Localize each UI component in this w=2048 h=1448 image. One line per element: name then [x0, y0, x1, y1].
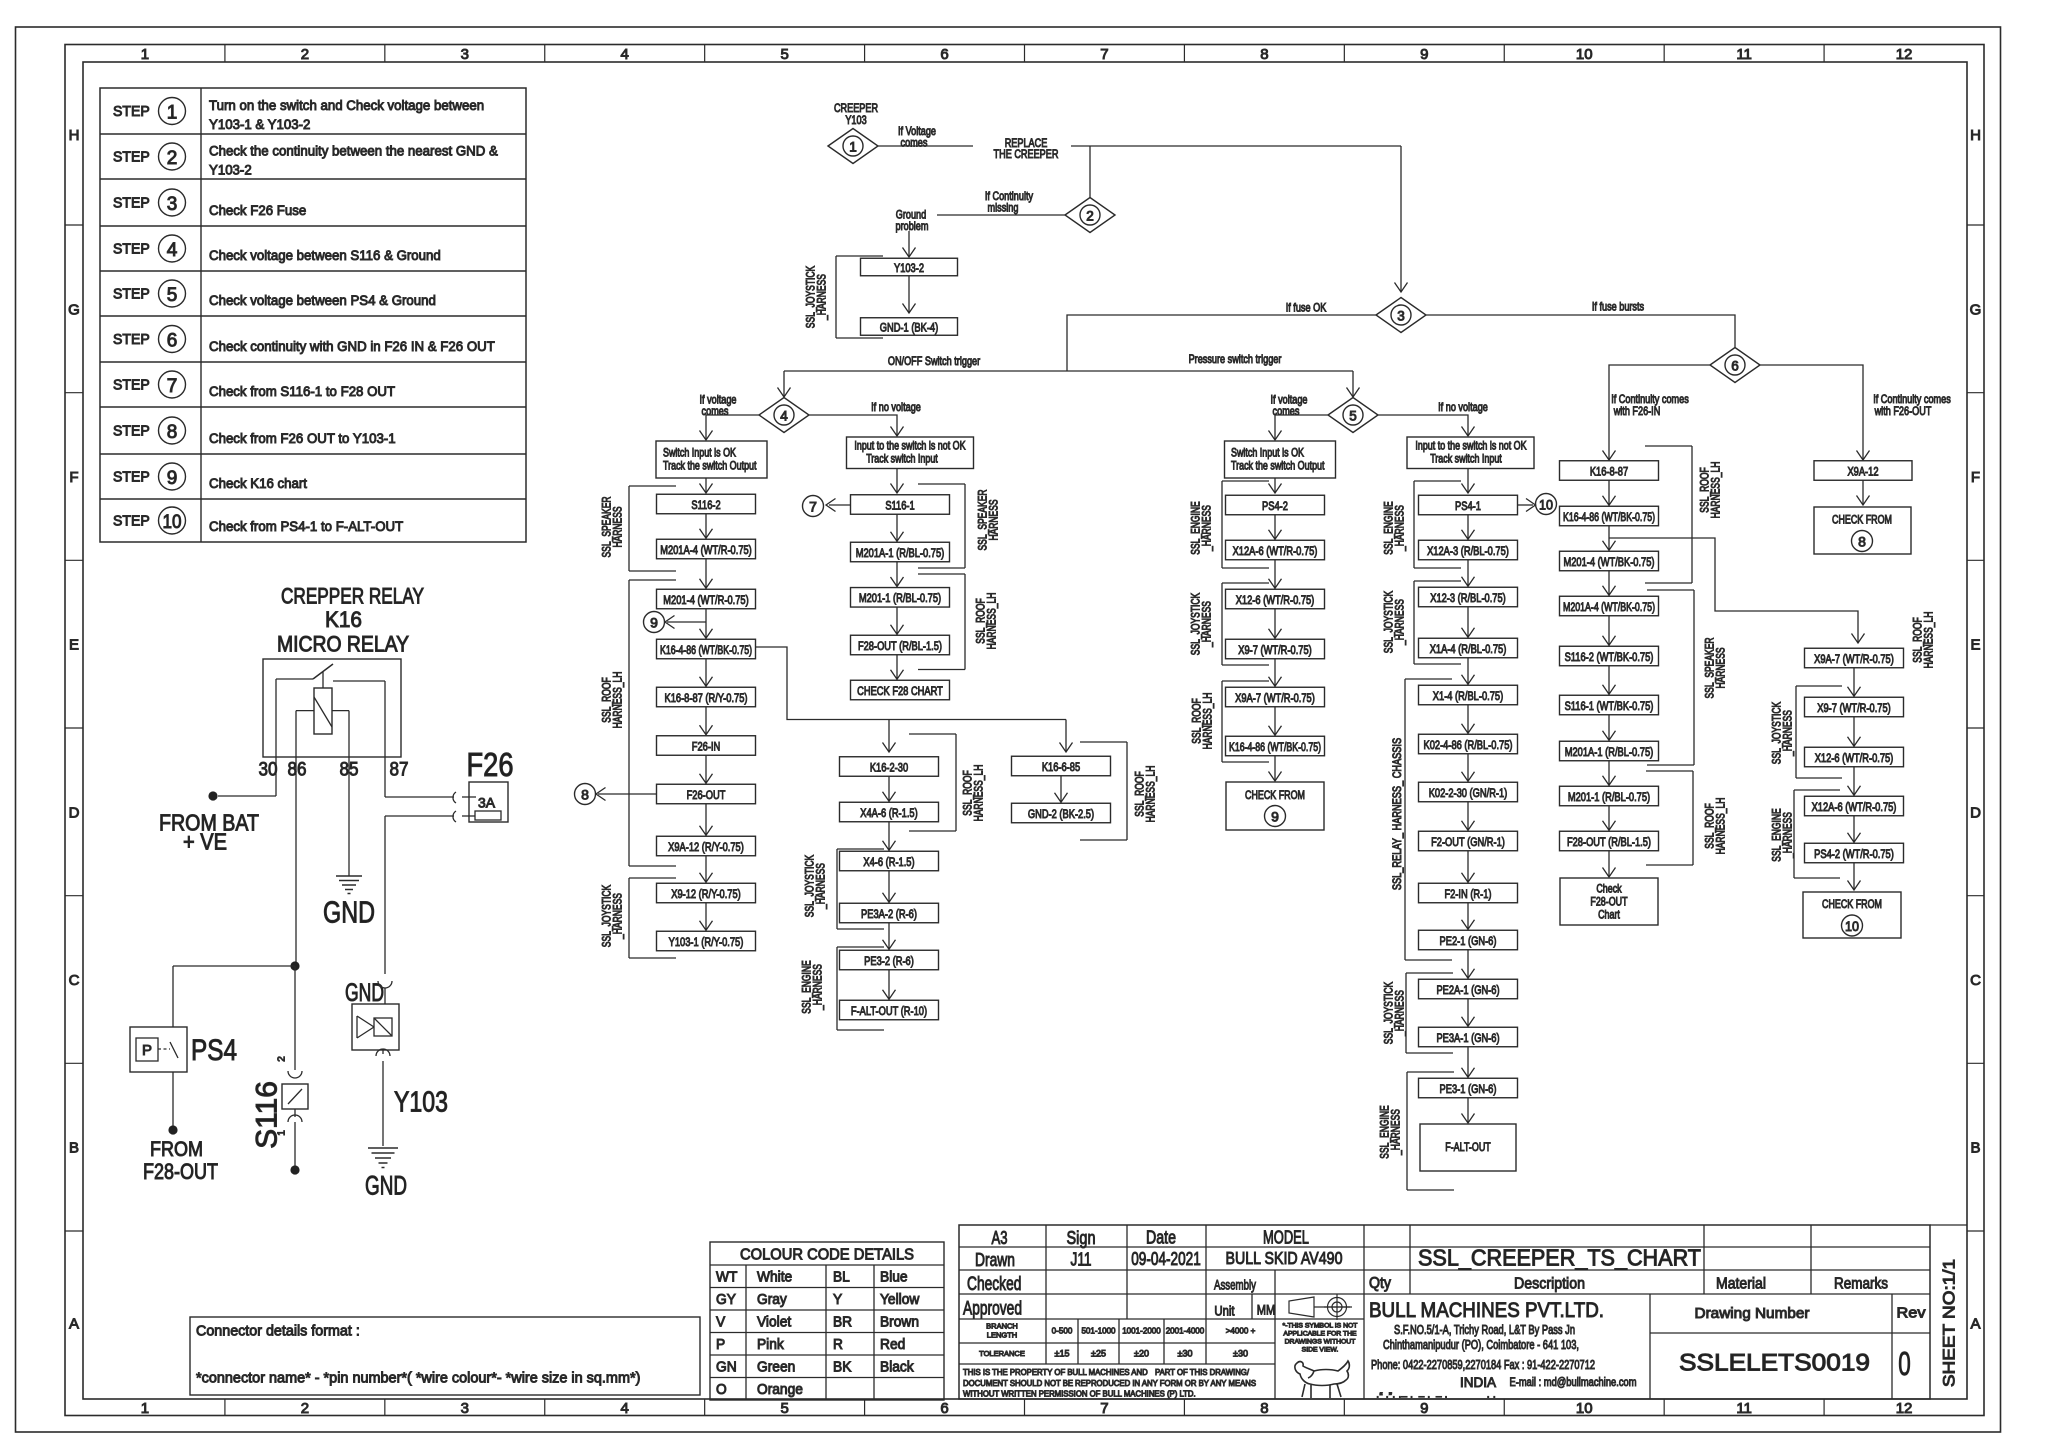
svg-text:M201A-4 (WT/BK-0.75): M201A-4 (WT/BK-0.75) [1563, 600, 1655, 614]
svg-text:X12-3 (R/BL-0.75): X12-3 (R/BL-0.75) [1430, 591, 1506, 605]
svg-text:85: 85 [340, 759, 359, 780]
svg-text:MODEL: MODEL [1263, 1227, 1309, 1247]
svg-text:K02-2-30 (GN/R-1): K02-2-30 (GN/R-1) [1429, 786, 1508, 800]
svg-text:K16-6-85: K16-6-85 [1042, 760, 1080, 774]
svg-text:Yellow: Yellow [880, 1292, 920, 1308]
svg-text:Pressure switch trigger: Pressure switch trigger [1189, 352, 1282, 366]
svg-text:O: O [716, 1382, 727, 1398]
svg-text:HARNESS_LH: HARNESS_LH [613, 672, 625, 729]
svg-text:STEP: STEP [113, 104, 150, 120]
svg-text:E: E [69, 637, 79, 654]
svg-text:Switch Input is OK: Switch Input is OK [1231, 446, 1304, 460]
svg-text:PE2-1 (GN-6): PE2-1 (GN-6) [1440, 934, 1497, 948]
svg-text:WITHOUT WRITTEN PERMISSION OF: WITHOUT WRITTEN PERMISSION OF BULL MACHI… [963, 1389, 1196, 1398]
svg-text:R: R [833, 1337, 843, 1353]
svg-text:5: 5 [167, 285, 178, 306]
svg-text:5: 5 [780, 1400, 788, 1417]
svg-text:E: E [1970, 637, 1980, 654]
svg-text:9: 9 [1420, 46, 1428, 63]
svg-text:_HARNESS: _HARNESS [1395, 599, 1407, 646]
svg-text:PS4-2: PS4-2 [1262, 499, 1288, 513]
svg-text:S116-2: S116-2 [691, 498, 720, 512]
svg-text:7: 7 [1100, 46, 1108, 63]
svg-text:missing: missing [988, 200, 1019, 214]
svg-text:STEP: STEP [113, 332, 150, 348]
svg-text:12: 12 [1896, 1400, 1913, 1417]
svg-text:87: 87 [390, 759, 409, 780]
svg-text:TOLERANCE: TOLERANCE [979, 1349, 1025, 1358]
svg-text:CHECK FROM: CHECK FROM [1245, 788, 1305, 802]
svg-text:09-04-2021: 09-04-2021 [1131, 1248, 1201, 1269]
svg-text:PS4: PS4 [191, 1034, 237, 1067]
svg-text:6: 6 [1731, 358, 1739, 373]
svg-text:Check voltage between S116 & G: Check voltage between S116 & Ground [209, 248, 441, 264]
svg-text:X12-6 (WT/R-0.75): X12-6 (WT/R-0.75) [1815, 751, 1894, 765]
svg-text:THE CREEPER: THE CREEPER [994, 147, 1059, 161]
svg-text:STEP: STEP [113, 514, 150, 530]
svg-text:Check the continuity between t: Check the continuity between the nearest… [209, 144, 498, 160]
svg-text:If no voltage: If no voltage [871, 400, 921, 414]
svg-text:ON/OFF Switch trigger: ON/OFF Switch trigger [888, 354, 980, 368]
svg-text:INDIA: INDIA [1460, 1375, 1496, 1390]
svg-text:CHECK FROM: CHECK FROM [1832, 513, 1892, 527]
svg-text:3: 3 [461, 46, 469, 63]
svg-text:1: 1 [141, 1400, 149, 1417]
svg-text:6: 6 [940, 1400, 948, 1417]
svg-text:Turn on the switch and Check v: Turn on the switch and Check voltage bet… [209, 98, 484, 114]
svg-text:1: 1 [849, 139, 857, 154]
svg-text:F28-OUT: F28-OUT [1590, 895, 1627, 909]
svg-text:GND: GND [365, 1171, 407, 1201]
svg-text:F28-OUT (R/BL-1.5): F28-OUT (R/BL-1.5) [1567, 835, 1651, 849]
svg-text:FROM: FROM [150, 1138, 203, 1161]
svg-text:8: 8 [167, 422, 178, 443]
svg-text:Assembly: Assembly [1214, 1277, 1256, 1293]
svg-text:9: 9 [650, 615, 658, 631]
svg-text:K16: K16 [325, 607, 362, 632]
svg-text:_HARNESS: _HARNESS [1395, 990, 1407, 1037]
svg-text:F28-OUT (R/BL-1.5): F28-OUT (R/BL-1.5) [858, 639, 942, 653]
svg-text:Switch Input is OK: Switch Input is OK [663, 446, 736, 460]
svg-text:G: G [68, 301, 80, 318]
svg-text:7: 7 [1100, 1400, 1108, 1417]
svg-text:SSL_RELAY_ HARNESS_ CHASSIS: SSL_RELAY_ HARNESS_ CHASSIS [1392, 738, 1404, 890]
svg-text:GND-2 (BK-2.5): GND-2 (BK-2.5) [1028, 807, 1094, 821]
svg-text:3A: 3A [478, 795, 496, 811]
svg-text:THIS IS THE PROPERTY OF BULL M: THIS IS THE PROPERTY OF BULL MACHINES AN… [963, 1368, 1148, 1377]
svg-text:S.F.NO.5/1-A, Trichy Road, L&T: S.F.NO.5/1-A, Trichy Road, L&T By Pass J… [1394, 1323, 1575, 1337]
svg-text:X9-7 (WT/R-0.75): X9-7 (WT/R-0.75) [1238, 643, 1312, 657]
svg-text:0: 0 [1898, 1345, 1911, 1382]
svg-text:V: V [716, 1314, 726, 1330]
svg-text:HARNESS: HARNESS [989, 499, 1001, 540]
svg-text:2: 2 [301, 1400, 309, 1417]
svg-text:Unit: Unit [1214, 1303, 1234, 1318]
svg-text:>4000 +: >4000 + [1226, 1326, 1256, 1336]
svg-text:STEP: STEP [113, 150, 150, 166]
svg-text:PE3A-2 (R-6): PE3A-2 (R-6) [861, 907, 917, 921]
svg-text:Material: Material [1716, 1275, 1766, 1292]
svg-text:REPRODUCED IN ANY FORM OR BY A: REPRODUCED IN ANY FORM OR BY ANY MEANS [1075, 1379, 1256, 1388]
svg-text:If fuse OK: If fuse OK [1286, 300, 1327, 314]
svg-text:K02-4-86 (R/BL-0.75): K02-4-86 (R/BL-0.75) [1424, 738, 1513, 752]
svg-text:CHECK F28 CHART: CHECK F28 CHART [857, 684, 943, 698]
svg-text:with F26-IN: with F26-IN [1613, 404, 1660, 418]
svg-text:±25: ±25 [1091, 1349, 1106, 1359]
svg-text:Track switch Input: Track switch Input [866, 452, 938, 466]
svg-text:X9-12 (R/Y-0.75): X9-12 (R/Y-0.75) [671, 887, 741, 901]
svg-text:30: 30 [259, 759, 278, 780]
svg-text:Green: Green [757, 1359, 795, 1375]
svg-text:_HARNESS: _HARNESS [613, 893, 625, 940]
svg-text:Track the switch Output: Track the switch Output [663, 459, 757, 473]
svg-text:Check F26 Fuse: Check F26 Fuse [209, 203, 306, 219]
svg-text:8: 8 [1260, 1400, 1268, 1417]
svg-text:Check: Check [1596, 882, 1621, 896]
svg-text:HARNESS_LH: HARNESS_LH [1924, 612, 1936, 669]
svg-text:Y103-1 (R/Y-0.75): Y103-1 (R/Y-0.75) [669, 935, 744, 949]
svg-text:PS4-2 (WT/R-0.75): PS4-2 (WT/R-0.75) [1814, 847, 1894, 861]
svg-text:X9A-12: X9A-12 [1847, 464, 1878, 478]
svg-text:11: 11 [1736, 1400, 1752, 1417]
svg-text:1: 1 [167, 102, 178, 123]
svg-text:comes: comes [702, 404, 729, 418]
svg-text:X1A-4 (R/BL-0.75): X1A-4 (R/BL-0.75) [1430, 642, 1507, 656]
svg-text:Brown: Brown [880, 1314, 919, 1330]
svg-text:X9A-7 (WT/R-0.75): X9A-7 (WT/R-0.75) [1814, 652, 1894, 666]
svg-text:F2-OUT (GN/R-1): F2-OUT (GN/R-1) [1431, 835, 1505, 849]
svg-text:PE3-2 (R-6): PE3-2 (R-6) [864, 954, 914, 968]
svg-text:MICRO RELAY: MICRO RELAY [277, 631, 409, 656]
svg-text:4: 4 [621, 46, 629, 63]
svg-text:4: 4 [780, 408, 788, 423]
svg-text:10: 10 [163, 512, 182, 533]
svg-text:HARNESS_LH: HARNESS_LH [1146, 766, 1158, 823]
svg-text:BULL MACHINES PVT.LTD.: BULL MACHINES PVT.LTD. [1369, 1299, 1604, 1322]
svg-text:SIDE VIEW.: SIDE VIEW. [1302, 1346, 1339, 1353]
svg-text:with F26-OUT: with F26-OUT [1874, 404, 1932, 418]
svg-text:2: 2 [1086, 208, 1094, 223]
svg-text:Drawing Number: Drawing Number [1695, 1306, 1810, 1322]
svg-text:SHEET NO:1/1: SHEET NO:1/1 [1940, 1259, 1959, 1387]
svg-text:Y103: Y103 [845, 113, 867, 127]
svg-text:STEP: STEP [113, 424, 150, 440]
svg-text:_HARNESS: _HARNESS [1783, 812, 1795, 859]
svg-text:D: D [69, 804, 80, 821]
svg-text:STEP: STEP [113, 378, 150, 394]
svg-text:DRAWINGS WITHOUT: DRAWINGS WITHOUT [1285, 1338, 1356, 1345]
svg-text:±30: ±30 [1233, 1349, 1248, 1359]
svg-text:White: White [757, 1269, 792, 1285]
svg-text:STEP: STEP [113, 196, 150, 212]
svg-text:·“ ·”· ·– · – · – ·: ·“ ·”· ·– · – · – · · · [1376, 1392, 1496, 1403]
svg-text:_HARNESS: _HARNESS [1202, 601, 1214, 648]
svg-text:±15: ±15 [1055, 1349, 1070, 1359]
svg-text:X9A-7 (WT/R-0.75): X9A-7 (WT/R-0.75) [1235, 691, 1315, 705]
svg-text:M201A-4 (WT/R-0.75): M201A-4 (WT/R-0.75) [660, 543, 752, 557]
svg-text:Y103-1 & Y103-2: Y103-1 & Y103-2 [209, 117, 310, 133]
svg-text:BL: BL [833, 1269, 850, 1285]
svg-text:Gray: Gray [757, 1292, 788, 1308]
svg-text:Red: Red [880, 1337, 905, 1353]
svg-text:Check voltage between PS4 & Gr: Check voltage between PS4 & Ground [209, 293, 436, 309]
svg-text:Chart: Chart [1598, 908, 1620, 922]
svg-text:E-mail : md@bullmachine.com: E-mail : md@bullmachine.com [1510, 1377, 1637, 1389]
svg-text:comes: comes [901, 135, 928, 149]
svg-text:6: 6 [940, 46, 948, 63]
svg-text:PE3A-1 (GN-6): PE3A-1 (GN-6) [1436, 1031, 1499, 1045]
svg-text:F26-IN: F26-IN [692, 739, 721, 753]
svg-text:PE2A-1 (GN-6): PE2A-1 (GN-6) [1436, 983, 1499, 997]
svg-text:*-THIS SYMBOL IS NOT: *-THIS SYMBOL IS NOT [1283, 1322, 1358, 1329]
svg-text:K16-4-86 (WT/BK-0.75): K16-4-86 (WT/BK-0.75) [1229, 740, 1321, 754]
svg-text:4: 4 [167, 240, 178, 261]
svg-text:Y103-2: Y103-2 [209, 163, 252, 179]
svg-text:12: 12 [1896, 46, 1913, 63]
svg-text:C: C [1970, 972, 1981, 989]
svg-text:1: 1 [277, 1130, 288, 1136]
svg-text:B: B [69, 1140, 79, 1157]
svg-text:±20: ±20 [1134, 1349, 1149, 1359]
svg-text:10: 10 [1576, 46, 1593, 63]
svg-text:+ VE: + VE [183, 828, 227, 854]
svg-text:_HARNESS: _HARNESS [1391, 1109, 1403, 1156]
svg-text:Pink: Pink [757, 1337, 785, 1353]
svg-text:K16-4-86 (WT/BK-0.75): K16-4-86 (WT/BK-0.75) [660, 643, 752, 657]
svg-text:CHECK FROM: CHECK FROM [1822, 897, 1882, 911]
svg-text:2: 2 [301, 46, 309, 63]
svg-text:Description: Description [1514, 1275, 1585, 1292]
svg-text:Connector details format :: Connector details format : [196, 1323, 360, 1339]
svg-text:5: 5 [780, 46, 788, 63]
svg-text:S116-1: S116-1 [885, 498, 914, 512]
svg-text:Violet: Violet [757, 1314, 791, 1330]
svg-text:X1-4 (R/BL-0.75): X1-4 (R/BL-0.75) [1433, 689, 1503, 703]
svg-text:BK: BK [833, 1359, 852, 1375]
svg-text:STEP: STEP [113, 242, 150, 258]
svg-text:M201-1 (R/BL-0.75): M201-1 (R/BL-0.75) [859, 591, 941, 605]
svg-text:If fuse bursts: If fuse bursts [1592, 299, 1644, 313]
svg-text:A3: A3 [992, 1228, 1008, 1248]
svg-text:comes: comes [1273, 404, 1300, 418]
svg-text:X9-7 (WT/R-0.75): X9-7 (WT/R-0.75) [1817, 701, 1891, 715]
svg-text:PS4-1: PS4-1 [1455, 499, 1481, 513]
svg-text:HARNESS: HARNESS [613, 506, 625, 547]
svg-text:Date: Date [1146, 1227, 1176, 1247]
svg-text:M201A-1 (R/BL-0.75): M201A-1 (R/BL-0.75) [856, 546, 945, 560]
svg-text:HARNESS_LH: HARNESS_LH [1716, 798, 1728, 855]
svg-text:_HARNESS: _HARNESS [1783, 710, 1795, 757]
svg-text:F26: F26 [467, 746, 514, 783]
svg-text:M201-1 (R/BL-0.75): M201-1 (R/BL-0.75) [1568, 790, 1650, 804]
svg-text:S116-1 (WT/BK-0.75): S116-1 (WT/BK-0.75) [1565, 699, 1654, 713]
svg-text:HARNESS_LH: HARNESS_LH [974, 765, 986, 822]
svg-text:Input to the switch is not OK: Input to the switch is not OK [854, 439, 965, 453]
svg-text:11: 11 [1736, 46, 1752, 63]
svg-text:APPLICABLE FOR THE: APPLICABLE FOR THE [1283, 1330, 1357, 1337]
svg-text:X4-6 (R-1.5): X4-6 (R-1.5) [863, 855, 914, 869]
svg-text:F: F [1971, 469, 1980, 486]
svg-text:X12A-6 (WT/R-0.75): X12A-6 (WT/R-0.75) [1812, 800, 1897, 814]
svg-text:Blue: Blue [880, 1269, 908, 1285]
svg-text:2: 2 [167, 148, 178, 169]
svg-text:8: 8 [581, 787, 589, 803]
svg-text:Black: Black [880, 1359, 914, 1375]
svg-text:BULL SKID AV490: BULL SKID AV490 [1226, 1248, 1343, 1268]
svg-text:1001-2000: 1001-2000 [1122, 1326, 1161, 1336]
svg-text:If no voltage: If no voltage [1438, 400, 1488, 414]
svg-text:Y103-2: Y103-2 [894, 261, 924, 275]
svg-text:P: P [142, 1042, 152, 1059]
svg-text:F-ALT-OUT (R-10): F-ALT-OUT (R-10) [851, 1004, 927, 1018]
svg-text:BR: BR [833, 1314, 852, 1330]
svg-text:_HARNESS: _HARNESS [1202, 505, 1214, 552]
svg-text:M201-4 (WT/BK-0.75): M201-4 (WT/BK-0.75) [1564, 555, 1655, 569]
svg-text:±30: ±30 [1178, 1349, 1193, 1359]
svg-text:7: 7 [809, 499, 817, 515]
svg-text:F2-IN (R-1): F2-IN (R-1) [1444, 887, 1491, 901]
svg-text:K16-2-30: K16-2-30 [870, 760, 908, 774]
svg-text:8: 8 [1858, 534, 1866, 550]
svg-text:Check from F26 OUT to Y103-1: Check from F26 OUT to Y103-1 [209, 431, 396, 447]
svg-text:K16-4-86 (WT/BK-0.75): K16-4-86 (WT/BK-0.75) [1563, 510, 1655, 524]
svg-text:M201-4 (WT/R-0.75): M201-4 (WT/R-0.75) [663, 593, 748, 607]
svg-text:GY: GY [716, 1292, 736, 1308]
svg-text:8: 8 [1260, 46, 1268, 63]
svg-text:Phone: 0422-2270859,2270184 Fa: Phone: 0422-2270859,2270184 Fax : 91-422… [1371, 1358, 1595, 1372]
svg-text:HARNESS: HARNESS [1716, 647, 1728, 688]
svg-text:MM: MM [1257, 1302, 1276, 1318]
svg-text:BRANCH: BRANCH [986, 1322, 1018, 1331]
svg-text:Sign: Sign [1067, 1228, 1096, 1248]
svg-text:S116: S116 [250, 1081, 283, 1149]
svg-text:X12A-6 (WT/R-0.75): X12A-6 (WT/R-0.75) [1233, 544, 1318, 558]
svg-text:GND: GND [323, 895, 375, 930]
svg-text:Track the switch Output: Track the switch Output [1231, 459, 1325, 473]
svg-text:GND-1 (BK-4): GND-1 (BK-4) [880, 320, 938, 334]
svg-text:COLOUR CODE DETAILS: COLOUR CODE DETAILS [740, 1247, 914, 1264]
svg-text:PART OF THIS DRAWING/: PART OF THIS DRAWING/ [1155, 1368, 1250, 1377]
svg-text:Input to the switch is not OK: Input to the switch is not OK [1415, 439, 1526, 453]
svg-text:G: G [1970, 301, 1982, 318]
svg-text:HARNESS_LH: HARNESS_LH [987, 593, 999, 650]
svg-text:Y103: Y103 [394, 1086, 448, 1118]
svg-text:Remarks: Remarks [1834, 1275, 1888, 1292]
svg-text:Check from PS4-1 to F-ALT-OUT: Check from PS4-1 to F-ALT-OUT [209, 519, 404, 535]
svg-text:Check from S116-1 to F28 OUT: Check from S116-1 to F28 OUT [209, 384, 395, 400]
svg-text:0-500: 0-500 [1052, 1326, 1073, 1336]
svg-text:P: P [716, 1337, 725, 1353]
svg-text:SSL_CREEPER_TS_CHART: SSL_CREEPER_TS_CHART [1418, 1244, 1701, 1270]
svg-text:Checked: Checked [967, 1274, 1021, 1295]
svg-text:_HARNESS: _HARNESS [817, 274, 829, 321]
svg-text:Approved: Approved [963, 1298, 1022, 1319]
svg-text:Chinthamanipudur (PO), Coimbat: Chinthamanipudur (PO), Coimbatore - 641 … [1383, 1338, 1579, 1352]
svg-text:H: H [1970, 127, 1981, 144]
svg-text:6: 6 [167, 330, 178, 351]
svg-text:Orange: Orange [757, 1382, 803, 1398]
svg-text:K16-8-87 (R/Y-0.75): K16-8-87 (R/Y-0.75) [665, 691, 748, 705]
svg-text:C: C [69, 972, 80, 989]
svg-text:3: 3 [167, 194, 178, 215]
svg-text:10: 10 [1539, 497, 1553, 513]
svg-text:WT: WT [716, 1269, 738, 1285]
svg-text:86: 86 [288, 759, 307, 780]
svg-text:Check continuity with GND in F: Check continuity with GND in F26 IN & F2… [209, 339, 495, 355]
svg-text:9: 9 [167, 468, 178, 489]
svg-text:_HARNESS: _HARNESS [816, 863, 828, 910]
svg-text:F-ALT-OUT: F-ALT-OUT [1445, 1140, 1491, 1154]
svg-text:S116-2 (WT/BK-0.75): S116-2 (WT/BK-0.75) [1565, 650, 1654, 664]
svg-text:Drawn: Drawn [975, 1249, 1015, 1270]
svg-text:_HARNESS: _HARNESS [1395, 505, 1407, 552]
svg-text:PE3-1 (GN-6): PE3-1 (GN-6) [1440, 1082, 1497, 1096]
svg-text:3: 3 [461, 1400, 469, 1417]
svg-text:10: 10 [1576, 1400, 1593, 1417]
svg-text:*connector name* - *pin numbe: *connector name* - *pin number*( *wire c… [196, 1370, 640, 1386]
svg-text:F28-OUT: F28-OUT [143, 1159, 218, 1184]
svg-text:10: 10 [1845, 918, 1859, 934]
svg-text:SSLELETS0019: SSLELETS0019 [1679, 1350, 1870, 1377]
svg-text:Rev: Rev [1897, 1306, 1927, 1322]
svg-text:2001-4000: 2001-4000 [1166, 1326, 1205, 1336]
svg-text:Y: Y [833, 1292, 843, 1308]
svg-text:X4A-6 (R-1.5): X4A-6 (R-1.5) [860, 806, 917, 820]
svg-text:DOCUMENT SHOULD NOT BE: DOCUMENT SHOULD NOT BE [963, 1379, 1073, 1388]
svg-text:H: H [69, 127, 80, 144]
svg-text:X12-6 (WT/R-0.75): X12-6 (WT/R-0.75) [1236, 593, 1315, 607]
svg-text:2: 2 [277, 1056, 288, 1062]
svg-text:7: 7 [167, 376, 178, 397]
svg-text:A: A [1970, 1316, 1980, 1333]
svg-text:Track switch Input: Track switch Input [1430, 452, 1502, 466]
svg-text:A: A [69, 1316, 79, 1333]
svg-text:J11: J11 [1071, 1249, 1092, 1270]
svg-text:HARNESS_LH: HARNESS_LH [1203, 693, 1215, 750]
svg-text:GN: GN [716, 1359, 737, 1375]
svg-text:D: D [1970, 804, 1981, 821]
svg-text:F26-OUT: F26-OUT [687, 788, 726, 802]
svg-text:K16-8-87: K16-8-87 [1590, 464, 1628, 478]
svg-text:_HARNESS: _HARNESS [813, 964, 825, 1011]
svg-text:1: 1 [141, 46, 149, 63]
svg-text:STEP: STEP [113, 470, 150, 486]
svg-text:B: B [1970, 1140, 1980, 1157]
svg-text:3: 3 [1397, 308, 1405, 323]
svg-text:STEP: STEP [113, 287, 150, 303]
svg-text:LENGTH: LENGTH [987, 1331, 1017, 1340]
svg-text:Qty: Qty [1369, 1275, 1391, 1292]
svg-text:CREPPER RELAY: CREPPER RELAY [281, 583, 424, 608]
svg-text:501-1000: 501-1000 [1081, 1326, 1115, 1336]
svg-text:X12A-3 (R/BL-0.75): X12A-3 (R/BL-0.75) [1427, 544, 1509, 558]
svg-text:problem: problem [896, 219, 929, 233]
svg-text:Check K16 chart: Check K16 chart [209, 476, 307, 492]
svg-text:9: 9 [1271, 809, 1279, 825]
svg-text:5: 5 [1349, 408, 1357, 423]
svg-text:F: F [69, 469, 78, 486]
svg-text:4: 4 [621, 1400, 629, 1417]
svg-text:X9A-12 (R/Y-0.75): X9A-12 (R/Y-0.75) [668, 840, 744, 854]
svg-text:HARNESS_LH: HARNESS_LH [1711, 462, 1723, 519]
svg-text:M201A-1 (R/BL-0.75): M201A-1 (R/BL-0.75) [1565, 745, 1654, 759]
